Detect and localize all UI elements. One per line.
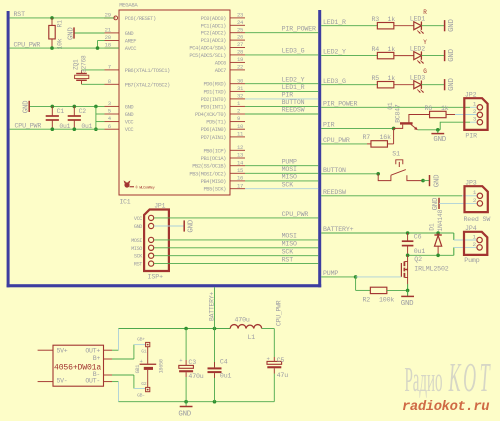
IC1 right pin 1 PD3(INT1) — [230, 105, 245, 107]
capacitor C4 — [214, 329, 216, 368]
battery GB1 plates — [147, 347, 149, 364]
LED LED3 — [414, 81, 422, 89]
transistor Q1 collector — [409, 115, 430, 124]
svg-text:MISO: MISO — [282, 241, 297, 248]
IC1 right pin 10 PD6(AIN0) — [230, 128, 245, 130]
bus frame right bar — [318, 10, 321, 287]
capacitor C5 polarized — [273, 357, 275, 361]
resistor R5 — [377, 82, 394, 88]
svg-text:C3: C3 — [188, 359, 196, 366]
svg-text:IRLML2502: IRLML2502 — [414, 265, 448, 272]
wire JP1 VCC to bus — [154, 217, 319, 219]
ground symbol near pin21 — [74, 32, 105, 34]
node junction C1 top — [51, 105, 55, 109]
wire emitter to JP2 pin3 — [440, 122, 470, 130]
wire LED1 to ground — [421, 25, 444, 27]
svg-text:ISP+: ISP+ — [148, 273, 164, 280]
svg-text:5: 5 — [108, 108, 111, 115]
svg-text:OUT+: OUT+ — [85, 347, 100, 354]
svg-text:R6: R6 — [425, 105, 433, 112]
IC1 left pin 7 PB6(XTAL1/TOSC1) — [105, 69, 120, 71]
IC1 left pin 29 PC6(/RESET) — [104, 17, 116, 19]
svg-text:11: 11 — [237, 131, 244, 138]
transistor Q1 emitter — [411, 124, 417, 129]
resistor R7 — [367, 143, 371, 145]
svg-text:17: 17 — [237, 182, 243, 189]
wire L1 to C5 — [262, 328, 275, 330]
svg-text:PD2(INT0): PD2(INT0) — [201, 97, 227, 103]
svg-text:AVCC: AVCC — [125, 46, 136, 52]
wire R6 to JP2 pin2 — [455, 114, 477, 116]
transistor Q2 mosfet — [400, 263, 402, 277]
IC1 right pin 17 PB5(SCK) — [230, 188, 245, 190]
IC1 cat logo — [124, 180, 134, 187]
wire MOSI to bus — [245, 172, 318, 174]
svg-text:GB-: GB- — [137, 392, 145, 398]
node junction VCC column — [94, 127, 98, 131]
IC1 left pin 3 GND — [105, 105, 120, 107]
node junction C3 top — [184, 327, 188, 331]
svg-text:GND: GND — [188, 219, 196, 232]
svg-text:1k: 1k — [388, 75, 396, 82]
ground symbol LED1 — [444, 20, 446, 31]
svg-text:MOSI: MOSI — [131, 238, 142, 244]
svg-text:LED3: LED3 — [410, 75, 425, 82]
svg-text:8: 8 — [108, 78, 111, 85]
svg-text:1k: 1k — [388, 16, 396, 23]
svg-text:20: 20 — [105, 34, 112, 41]
svg-text:VCC: VCC — [125, 120, 134, 126]
svg-text:CPU_PWR: CPU_PWR — [323, 137, 350, 144]
svg-text:19: 19 — [237, 56, 243, 63]
svg-text:R5: R5 — [372, 75, 380, 82]
svg-text:GND: GND — [448, 48, 456, 61]
wire JP1 RST to bus — [154, 263, 319, 265]
node junction AREF — [96, 46, 100, 50]
wire PIR to bus — [245, 98, 318, 100]
wire PUMP from bus — [321, 276, 355, 278]
ground symbol JP3 — [438, 198, 440, 209]
wire pin5 jog — [96, 113, 105, 115]
svg-text:26: 26 — [237, 34, 243, 41]
svg-text:AREF: AREF — [125, 39, 136, 45]
IC1 right pin 9 PD5(T1) — [230, 121, 245, 123]
svg-text:LED3_G: LED3_G — [323, 78, 346, 85]
transistor Q1 base lead — [394, 125, 403, 129]
wire JP1 GND — [154, 225, 185, 227]
svg-text:RST: RST — [14, 11, 26, 18]
svg-text:16: 16 — [237, 175, 243, 182]
svg-text:C2: C2 — [79, 108, 87, 115]
svg-text:PB1(OC1A): PB1(OC1A) — [201, 156, 227, 162]
wire OUT- down — [118, 382, 120, 402]
wire LED3_G from bus — [321, 84, 378, 86]
svg-text:ADC7: ADC7 — [215, 68, 226, 74]
wire LED2_Y from bus — [321, 55, 378, 57]
wire BATTERY+ from bus — [321, 232, 454, 234]
IC1 right pin 16 PB4(MISO) — [230, 180, 245, 182]
wire BUTTON from bus — [321, 173, 378, 175]
capacitor C1 — [51, 106, 53, 116]
svg-text:GND: GND — [125, 31, 134, 37]
svg-text:MOSI: MOSI — [282, 166, 297, 173]
node junction C2 bottom — [73, 127, 77, 131]
svg-text:7: 7 — [108, 64, 111, 71]
wire BATTERY+ jog to JP4 pin1 — [453, 233, 455, 240]
svg-text:© WLComRey: © WLComRey — [136, 186, 156, 191]
svg-text:PC1(ADC1): PC1(ADC1) — [201, 23, 227, 29]
svg-text:C5: C5 — [277, 357, 285, 364]
wire pin4 jog — [96, 121, 105, 123]
svg-text:PUMP: PUMP — [282, 158, 297, 165]
svg-text:LED1_R: LED1_R — [282, 84, 305, 91]
wire LED1_R to bus — [245, 90, 318, 92]
svg-text:MISO: MISO — [282, 174, 297, 181]
svg-text:R1: R1 — [57, 20, 64, 28]
svg-text:PC4(ADC4/SDA): PC4(ADC4/SDA) — [189, 46, 226, 52]
crystal ZQ1 — [76, 73, 87, 75]
wire JP1 MISO to bus — [154, 247, 319, 249]
node junction emitter ground — [436, 128, 440, 132]
svg-text:100k: 100k — [379, 297, 394, 304]
battery terminal GB+ — [146, 342, 150, 346]
svg-text:PIR_POWER: PIR_POWER — [323, 100, 357, 107]
svg-text:PUMP: PUMP — [323, 270, 338, 277]
capacitor C6 — [407, 233, 409, 241]
node junction C1 bottom — [51, 127, 55, 131]
svg-text:LED1: LED1 — [410, 16, 425, 23]
svg-text:PB6(XTAL1/TOSC1): PB6(XTAL1/TOSC1) — [125, 68, 170, 74]
IC1 left pin 6 VCC — [105, 128, 120, 130]
svg-text:LED3_G: LED3_G — [282, 48, 305, 55]
battery terminal GB- — [146, 387, 150, 391]
wire PIR_POWER to bus — [245, 32, 318, 34]
connector JP1 pin MISO — [149, 245, 154, 250]
LED LED1 — [414, 22, 422, 30]
svg-text:PIR: PIR — [323, 122, 335, 129]
node junction C6 bottom — [406, 254, 410, 258]
switch S1 actuator — [396, 160, 403, 165]
svg-text:CPU_PWR: CPU_PWR — [276, 300, 283, 326]
svg-text:PD5(T1): PD5(T1) — [206, 120, 226, 126]
transistor Q2 drain lead — [407, 255, 409, 261]
wire Q1 emitter to ground — [418, 129, 441, 131]
IC1 right pin 26 PC3(ADC3) — [230, 39, 245, 41]
svg-text:G2: G2 — [141, 381, 147, 387]
IC1 left pin 18 AVCC — [105, 47, 120, 49]
svg-text:Y: Y — [423, 39, 427, 46]
wire MISO to bus — [245, 180, 318, 182]
svg-text:2: 2 — [237, 108, 240, 115]
net BATTERY+ vertical wire to bus — [214, 287, 216, 328]
svg-text:GND: GND — [401, 300, 414, 308]
wire LED2 to ground — [421, 55, 444, 57]
wire CPU_PWR lower — [10, 128, 105, 130]
IC1 right pin 32 PD2(INT0) — [230, 98, 245, 100]
wire LED1_R from bus — [321, 25, 378, 27]
svg-text:G1: G1 — [141, 349, 147, 355]
inductor L1 — [230, 325, 238, 329]
node junction pump gate — [354, 275, 358, 279]
power module 4056 box — [53, 345, 104, 386]
wire top rail — [119, 328, 231, 330]
svg-text:21: 21 — [105, 27, 112, 34]
svg-text:LED2: LED2 — [410, 45, 425, 52]
wire CPU_PWR from bus to R7 — [321, 143, 367, 145]
connector JP1 pin VCC — [149, 215, 154, 220]
svg-text:REEDSW: REEDSW — [323, 189, 346, 196]
wire JP3 pin2 to ground — [439, 202, 477, 204]
wire LED3 to ground — [421, 84, 444, 86]
svg-text:30: 30 — [237, 77, 244, 84]
wire button to ground — [423, 180, 430, 182]
svg-text:B+: B+ — [93, 355, 101, 362]
IC1 right pin 23 PC0(ADC0) — [230, 17, 245, 19]
watermark logo — [405, 355, 491, 400]
wire OUT+ up — [118, 329, 120, 351]
wire LED2_Y to bus — [245, 83, 318, 85]
connector JP3 — [465, 186, 488, 212]
svg-text:GND: GND — [125, 104, 134, 110]
svg-text:PB4(MISO): PB4(MISO) — [201, 179, 227, 185]
svg-text:GND: GND — [178, 410, 191, 418]
svg-text:1N4148: 1N4148 — [437, 209, 444, 231]
svg-text:10: 10 — [237, 123, 244, 130]
svg-text:GND: GND — [448, 19, 456, 32]
resistor R3 — [377, 23, 394, 29]
IC1 left pin 20 AREF — [105, 40, 120, 42]
svg-text:32768: 32768 — [81, 55, 88, 73]
wire PIR from bus — [321, 127, 393, 129]
ground symbol at JP1 — [183, 220, 185, 231]
svg-text:GB+: GB+ — [137, 337, 145, 343]
connector JP1 pin MOSI — [149, 237, 154, 242]
svg-text:C4: C4 — [220, 359, 228, 366]
IC1 right pin 11 PD7(AIN1) — [230, 136, 245, 138]
node junction Q1 base — [392, 127, 396, 131]
svg-text:14: 14 — [237, 159, 244, 166]
node junction C2 top — [73, 105, 77, 109]
connector JP1 pin SCK — [149, 253, 154, 258]
ground symbol LED2 — [444, 50, 446, 61]
svg-text:GND: GND — [448, 78, 456, 91]
svg-text:R4: R4 — [372, 46, 380, 53]
svg-text:OUT-: OUT- — [85, 378, 100, 385]
wire bottom rail — [119, 401, 275, 403]
connector JP4 — [464, 232, 487, 255]
svg-text:IC1: IC1 — [120, 198, 131, 205]
svg-text:D1: D1 — [429, 223, 436, 231]
bus frame bottom bar — [7, 284, 322, 287]
svg-text:PD1(TXD): PD1(TXD) — [203, 89, 226, 95]
svg-text:КОТ: КОТ — [448, 355, 491, 400]
svg-text:C6: C6 — [414, 234, 422, 241]
IC1 right pin 24 PC1(ADC1) — [230, 24, 245, 26]
wire PIR_POWER from bus to JP2 pin1 — [321, 106, 470, 108]
svg-text:R7: R7 — [363, 134, 371, 141]
IC1 right pin 14 PB2(SS/OC1B) — [230, 165, 245, 167]
wire PUMP to gate — [356, 276, 402, 278]
svg-text:22: 22 — [237, 64, 243, 71]
svg-text:ZQ1: ZQ1 — [73, 59, 80, 70]
svg-text:GND: GND — [22, 100, 30, 113]
bus frame left bar — [7, 11, 10, 287]
IC1 right pin 22 ADC7 — [230, 69, 245, 71]
svg-text:47u: 47u — [277, 372, 289, 379]
node junction R1 bottom — [50, 46, 54, 50]
svg-text:JP4: JP4 — [465, 225, 477, 232]
svg-text:PB3(MOSI/OC2): PB3(MOSI/OC2) — [189, 171, 226, 177]
node junction C4 bottom — [213, 400, 217, 404]
svg-text:PC3(ADC3): PC3(ADC3) — [201, 38, 227, 44]
wire BUTTON to bus — [245, 105, 318, 107]
wire JP1 MOSI to bus — [154, 239, 319, 241]
svg-text:REEDSW: REEDSW — [282, 107, 305, 114]
wire AREF jog — [97, 41, 99, 49]
svg-text:PC2(ADC2): PC2(ADC2) — [201, 31, 227, 37]
capacitor C3 polarized — [185, 329, 187, 361]
svg-text:PD6(AIN0): PD6(AIN0) — [201, 127, 227, 133]
svg-text:32: 32 — [237, 93, 243, 100]
svg-text:12: 12 — [237, 144, 243, 151]
IC1 left pin 5 GND — [105, 113, 120, 115]
resistor R4 — [377, 52, 394, 58]
IC1 left pin 8 PB7(XTAL2/TOSC2) — [105, 83, 120, 85]
svg-text:13: 13 — [237, 152, 243, 159]
diode D1 — [437, 233, 439, 235]
ground symbol left of C1 — [29, 105, 104, 107]
switch S1 lever — [391, 170, 406, 176]
svg-text:Reed SW: Reed SW — [464, 216, 491, 223]
svg-text:MISO: MISO — [131, 246, 142, 252]
wire SCK to bus — [245, 188, 318, 190]
wire C5 column — [273, 329, 275, 358]
resistor R1 — [51, 18, 53, 26]
svg-text:R: R — [423, 9, 427, 16]
svg-text:radiokot.ru: radiokot.ru — [402, 399, 489, 415]
svg-text:0u1: 0u1 — [414, 248, 426, 255]
svg-text:JP2: JP2 — [465, 91, 477, 98]
wire R2 branch — [355, 277, 357, 291]
svg-text:Q1: Q1 — [387, 102, 394, 110]
node junction button — [376, 172, 380, 176]
svg-text:1k: 1k — [388, 46, 396, 53]
wire LED3_G to bus — [245, 54, 318, 56]
wire REEDSW from bus to JP3 pin1 — [321, 195, 462, 197]
svg-text:VCC: VCC — [134, 216, 142, 222]
wire JP4 pin2 — [453, 247, 455, 255]
ground symbol Q1 emitter — [437, 130, 439, 134]
resistor R6 — [430, 111, 447, 117]
svg-text:PD4(XCK/T0): PD4(XCK/T0) — [195, 112, 226, 118]
LED LED2 — [414, 52, 422, 60]
svg-text:S1: S1 — [392, 150, 400, 157]
svg-text:PB5(SCK): PB5(SCK) — [203, 187, 226, 193]
wire PUMP to bus — [245, 165, 318, 167]
svg-text:24: 24 — [237, 19, 244, 26]
svg-text:470u: 470u — [235, 316, 250, 323]
IC1 right pin 31 PD1(TXD) — [230, 90, 245, 92]
svg-text:CPU_PWR: CPU_PWR — [14, 41, 41, 48]
svg-text:PC5(ADC5/SCL): PC5(ADC5/SCL) — [189, 53, 226, 59]
wire pump low side — [408, 254, 454, 256]
svg-text:27: 27 — [237, 41, 243, 48]
svg-text:GND: GND — [433, 174, 441, 187]
svg-text:PD0(RXD): PD0(RXD) — [203, 82, 226, 88]
svg-text:BUTTON: BUTTON — [323, 167, 346, 174]
svg-text:BC847: BC847 — [395, 104, 402, 123]
svg-text:GND: GND — [67, 27, 75, 40]
node junction D1 bottom — [436, 254, 440, 258]
svg-text:R3: R3 — [372, 16, 380, 23]
svg-text:28: 28 — [237, 49, 243, 56]
svg-text:CPU_PWR: CPU_PWR — [282, 211, 309, 218]
svg-text:23: 23 — [237, 12, 243, 19]
svg-text:ADC6: ADC6 — [215, 60, 226, 66]
svg-text:6: 6 — [108, 123, 111, 130]
svg-text:G: G — [423, 68, 427, 75]
node junction C4 top — [213, 327, 217, 331]
svg-text:RST: RST — [134, 262, 142, 268]
svg-text:PC0(ADC0): PC0(ADC0) — [201, 16, 227, 22]
wire REEDSW to bus — [245, 113, 318, 115]
battery GB+ wire — [112, 358, 134, 360]
IC1 right pin 13 PB1(OC1A) — [230, 157, 245, 159]
svg-text:PC6(/RESET): PC6(/RESET) — [125, 16, 156, 22]
battery GB- wire — [112, 374, 134, 376]
svg-text:Pump: Pump — [464, 257, 479, 264]
wire RST — [10, 17, 114, 19]
wire CPU_PWR to AVCC — [10, 47, 119, 49]
crystal ZQ1 wires — [82, 69, 105, 71]
node junction GND column — [94, 105, 98, 109]
wire GND column vertical — [95, 106, 97, 129]
svg-text:BUTTON: BUTTON — [282, 99, 305, 106]
svg-text:PB7(XTAL2/TOSC2): PB7(XTAL2/TOSC2) — [125, 82, 170, 88]
IC1 right pin 2 PD4(XCK/T0) — [230, 113, 245, 115]
svg-text:PB2(SS/OC1B): PB2(SS/OC1B) — [192, 164, 226, 170]
svg-text:SCK: SCK — [282, 249, 294, 256]
IC1 right pin 30 PD0(RXD) — [230, 83, 245, 85]
IC1 right pin 25 PC2(ADC2) — [230, 32, 245, 34]
svg-text:BATTERY+: BATTERY+ — [323, 226, 354, 233]
svg-text:Q2: Q2 — [414, 256, 422, 263]
svg-text:JP3: JP3 — [465, 179, 477, 186]
svg-text:31: 31 — [237, 85, 244, 92]
IC1 right pin 28 PC5(ADC5/SCL) — [230, 54, 245, 56]
svg-text:16k: 16k — [380, 134, 392, 141]
IC1 right pin 19 ADC6 — [230, 61, 245, 63]
svg-text:3: 3 — [108, 100, 111, 107]
capacitor C2 — [73, 106, 75, 116]
svg-text:5V+: 5V+ — [57, 347, 68, 354]
transistor Q1 base bar — [400, 122, 413, 124]
svg-text:VCC: VCC — [125, 127, 134, 133]
svg-text:LED2_Y: LED2_Y — [323, 49, 346, 56]
node junction button ground — [421, 179, 425, 183]
svg-text:LED1_R: LED1_R — [323, 19, 346, 26]
node junction D1 top — [436, 231, 440, 235]
svg-text:PIR_POWER: PIR_POWER — [282, 25, 316, 32]
svg-text:C1: C1 — [57, 108, 65, 115]
svg-text:PB0(ICP): PB0(ICP) — [203, 148, 226, 154]
svg-text:PIR: PIR — [282, 92, 294, 99]
ground symbol LED3 — [444, 79, 446, 90]
svg-text:SCK: SCK — [134, 254, 143, 260]
connector JP1 box — [144, 210, 169, 272]
ground symbol S1 — [429, 175, 431, 186]
svg-text:470u: 470u — [188, 373, 203, 380]
